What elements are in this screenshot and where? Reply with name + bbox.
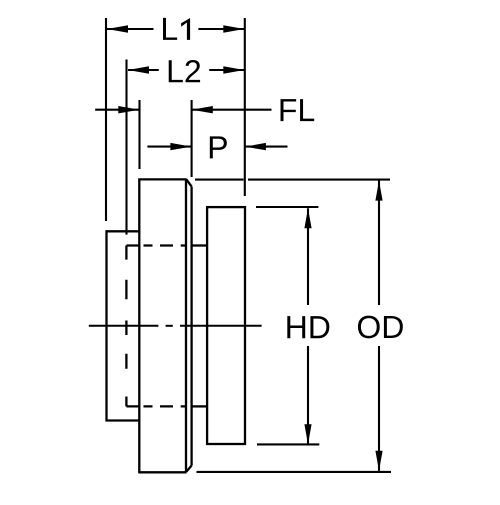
OD dimension line upper segment [378,180,380,305]
L1 extension line left [105,18,107,221]
flange left edge [138,179,140,473]
OD extension line top right part [248,179,390,181]
OD arrowhead up [375,181,382,201]
FL extension line right [191,100,193,177]
centerline short dash [166,325,173,327]
L2 extension line left [125,60,127,235]
flange bottom edge [138,471,186,473]
HD extension line top [256,206,318,208]
HD arrowhead up [304,208,311,228]
P left arrow line [147,146,191,148]
L2 dimension line left segment [128,69,159,71]
centerline long dash right [180,325,262,327]
HD dimension line lower segment [307,346,309,444]
bore visible segment bottom [192,405,208,407]
flange rim edge [190,187,192,466]
flange top bevel [186,179,191,186]
label FL [281,99,315,121]
OD arrowhead down [375,451,382,471]
label L1 digit 1 [181,18,190,40]
flange top edge [138,178,187,180]
P right arrow line [245,146,288,148]
OD dimension line lower segment [378,346,380,471]
bore hidden line top dashed [126,244,186,246]
label L1 letter L [163,18,177,40]
label OD [358,316,403,339]
FL arrowhead left [118,106,139,113]
L2 arrowhead left [128,66,149,73]
L1 dimension line left segment [107,28,154,30]
label P [210,136,227,158]
hub outline [207,207,245,444]
HD extension line bottom [257,443,319,445]
HD dimension line upper segment [307,208,309,305]
HD arrowhead down [304,424,311,444]
P arrowhead right [245,143,266,150]
L1 arrowhead right [223,25,244,32]
centerline long dash left [89,325,159,327]
label HD [287,316,329,338]
L2 arrowhead right [223,66,244,73]
sleeve outline [107,231,139,420]
flange front face edge [185,179,187,471]
FL left arrow line [95,109,139,111]
flange bottom bevel [186,466,191,472]
L1 dimension line right segment [198,28,244,30]
FL leader line right [192,109,272,111]
bore visible segment top [192,244,208,246]
bore hidden line bottom dashed [126,405,186,407]
L2 dimension line right segment [209,69,244,71]
bore end hidden vertical dashed [125,246,127,407]
P arrowhead left [170,143,191,150]
OD extension line bottom [197,471,392,473]
L1/P extension line right [244,18,246,196]
label L2 [169,60,200,82]
FL extension line left [138,100,140,169]
FL arrowhead right [192,106,213,113]
L1 arrowhead left [107,25,128,32]
OD extension line top left part [195,179,244,181]
